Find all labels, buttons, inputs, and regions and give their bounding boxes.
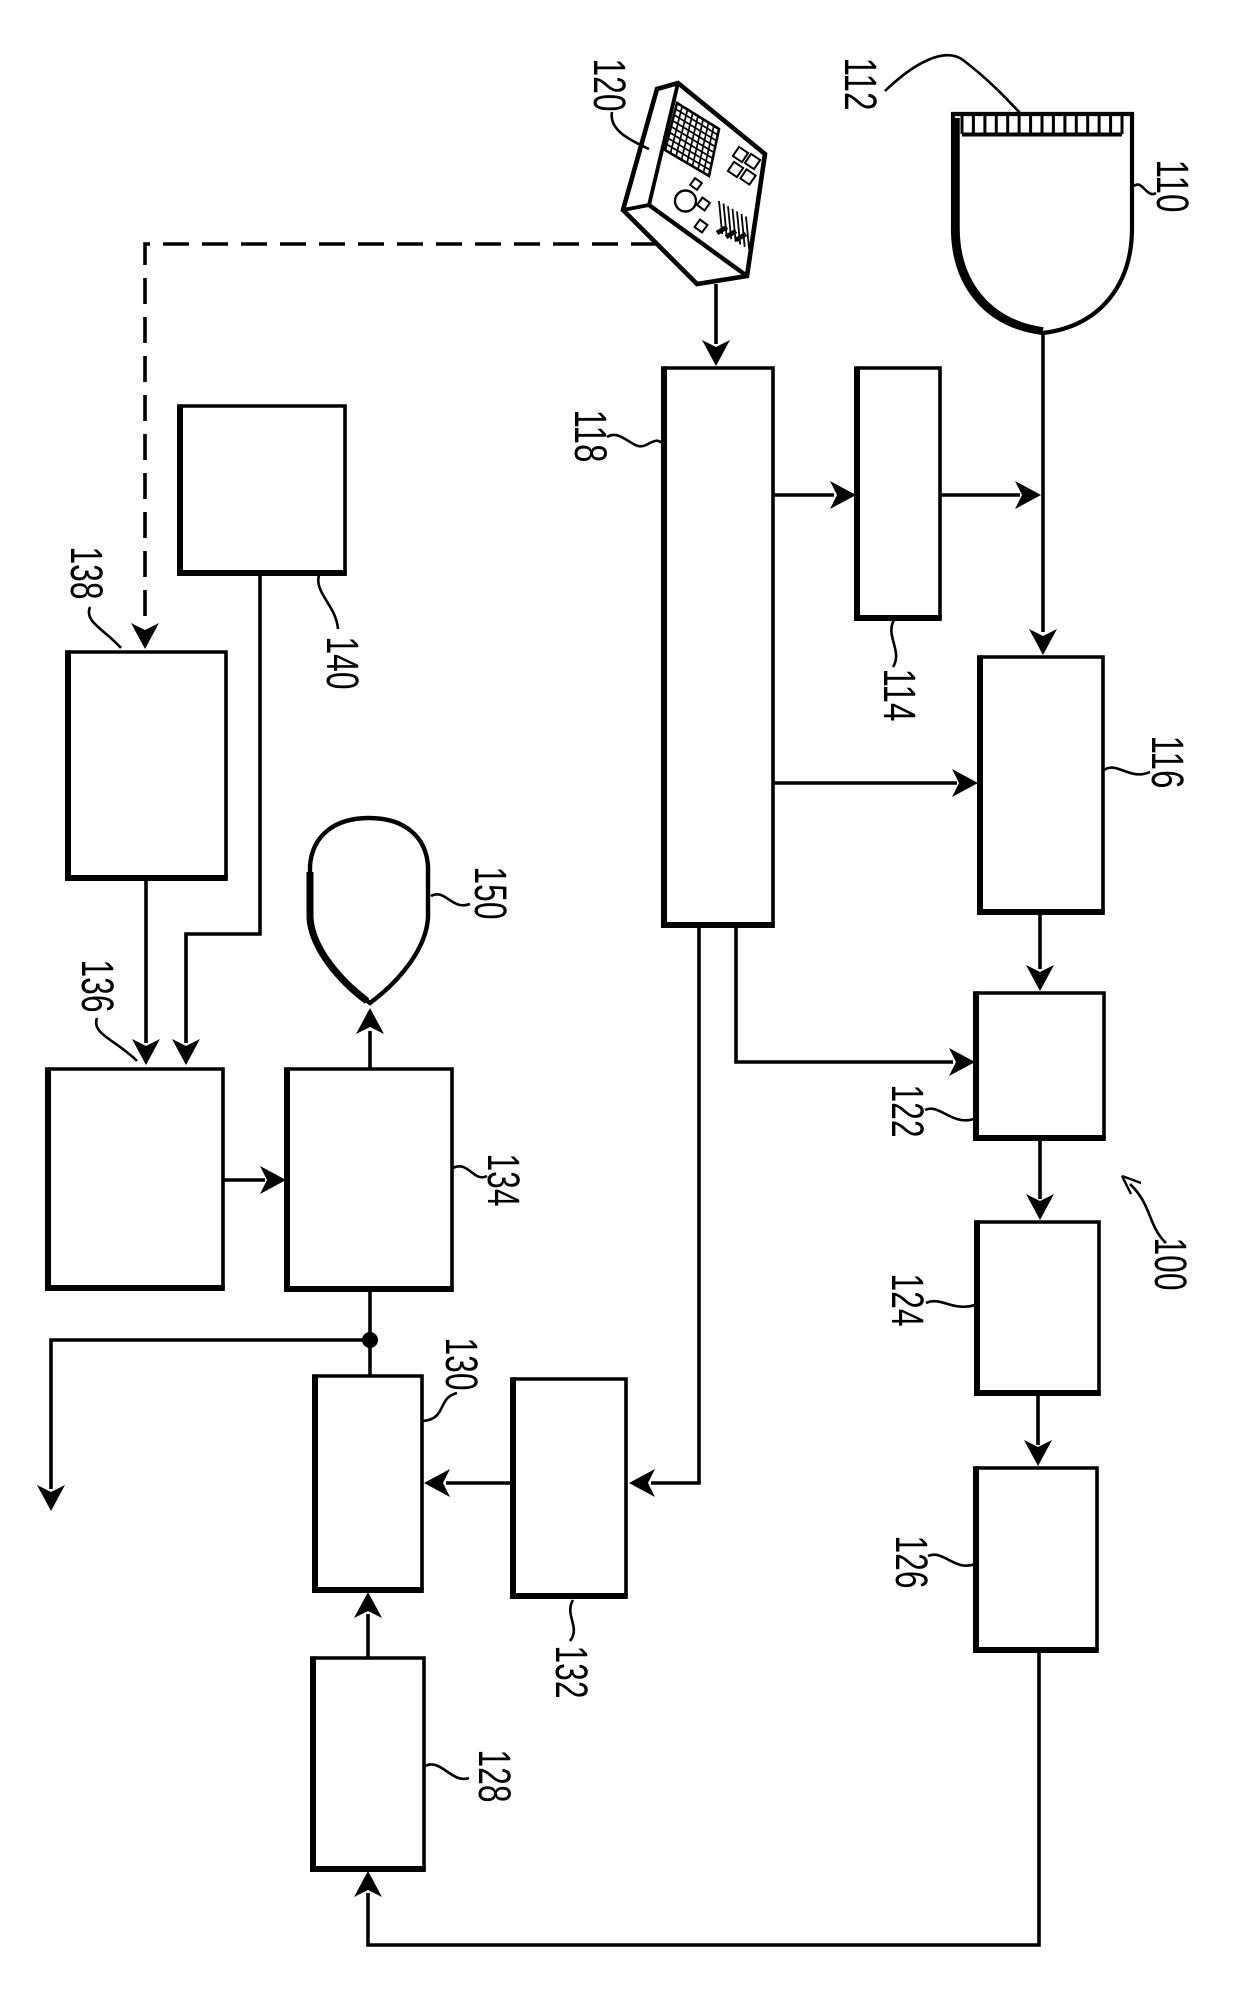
svg-text:110: 110 <box>1147 160 1198 213</box>
svg-text:126: 126 <box>886 1536 937 1589</box>
block 132 <box>513 1377 628 1596</box>
operator console 120 (3D box) <box>623 83 765 284</box>
svg-text:128: 128 <box>469 1750 520 1803</box>
block 138 <box>68 650 228 878</box>
svg-text:112: 112 <box>835 58 886 111</box>
svg-text:138: 138 <box>61 547 112 600</box>
junction dot <box>362 1332 378 1348</box>
leader line 138 <box>89 607 121 648</box>
leader line 126 <box>928 1555 975 1566</box>
wire block 116 to block 122 <box>1026 912 1054 991</box>
svg-text:120: 120 <box>584 59 635 112</box>
block 134 <box>287 1067 454 1289</box>
leader line 150 <box>431 894 470 905</box>
leader line 140 <box>318 575 338 629</box>
svg-text:132: 132 <box>546 1646 597 1699</box>
wire block 118 to block 114 <box>773 481 856 509</box>
wire block 134 up to display 150 <box>356 1008 384 1069</box>
leader line 128 <box>425 1764 469 1778</box>
display balloon 150 <box>310 818 428 1003</box>
leader line 124 <box>926 1301 975 1307</box>
console trackball <box>675 191 696 212</box>
leader line 110 <box>1134 184 1156 194</box>
wire block 114 to junction with transducer line <box>940 481 1041 509</box>
leader arrow 100 <box>1122 1176 1166 1243</box>
block 116 <box>980 655 1105 912</box>
wire block 136 to block 134 <box>223 1166 286 1194</box>
leader line 122 <box>925 1109 974 1121</box>
leader line 136 <box>96 1018 137 1061</box>
svg-text:124: 124 <box>882 1274 933 1327</box>
arrowhead into block 138 <box>131 623 159 649</box>
wire block 122 to block 124 <box>1026 1138 1054 1220</box>
wire block 118 left branch to block 132 <box>629 925 699 1497</box>
console slider knobs <box>717 227 746 240</box>
console keypad grid <box>665 103 719 176</box>
leader line 118 <box>607 435 664 446</box>
block 130 <box>315 1374 424 1590</box>
leader line 114 <box>891 620 896 667</box>
console small keys <box>690 178 710 232</box>
svg-text:136: 136 <box>72 960 123 1013</box>
svg-text:122: 122 <box>882 1085 933 1138</box>
svg-text:134: 134 <box>478 1154 529 1207</box>
block 122 <box>976 991 1106 1138</box>
transducer probe 110 <box>953 114 1132 333</box>
leader line 112 <box>885 55 1021 114</box>
wire block 128 to block 130 <box>354 1592 382 1658</box>
block 140 <box>180 404 347 573</box>
svg-text:114: 114 <box>874 669 925 722</box>
leader line 130 <box>423 1393 457 1421</box>
leader line 132 <box>570 1600 574 1641</box>
svg-text:140: 140 <box>317 637 368 690</box>
leader line 134 <box>453 1166 487 1177</box>
block 124 <box>977 1220 1101 1393</box>
dashed control line from console 120 to block 138 <box>145 244 657 624</box>
leader line 116 <box>1104 768 1150 775</box>
block 128 <box>313 1656 426 1869</box>
transducer array strip 112 <box>962 116 1122 135</box>
wire block 138 to block 136 <box>132 878 160 1065</box>
block 118 (beamformer) <box>664 366 775 925</box>
svg-text:130: 130 <box>436 1338 487 1391</box>
wire block 132 to block 130 <box>424 1469 513 1497</box>
wire junction to output arrow (left) <box>37 1340 370 1511</box>
wire block 126 loop to block 128 <box>354 1650 1039 1945</box>
wire block 134 down to block 130 <box>368 1289 372 1376</box>
block 136 <box>48 1067 225 1288</box>
wire block 124 to block 126 <box>1024 1393 1052 1466</box>
wire from transducer 110 down to block 116 <box>1029 333 1057 655</box>
console sliders <box>719 201 749 250</box>
wire from console 120 down to block 118 <box>702 284 730 366</box>
block 126 <box>976 1466 1099 1650</box>
wire block 140 to block 136 <box>172 573 260 1065</box>
block 114 <box>857 366 942 618</box>
wire block 118 right branch to block 122 <box>736 925 975 1076</box>
svg-text:100: 100 <box>1145 1238 1196 1291</box>
leader line 120 <box>612 112 649 149</box>
svg-text:150: 150 <box>465 867 516 920</box>
svg-text:116: 116 <box>1142 736 1193 789</box>
console 2x2 buttons <box>728 147 760 185</box>
wire block 118 to block 116 <box>773 769 978 797</box>
